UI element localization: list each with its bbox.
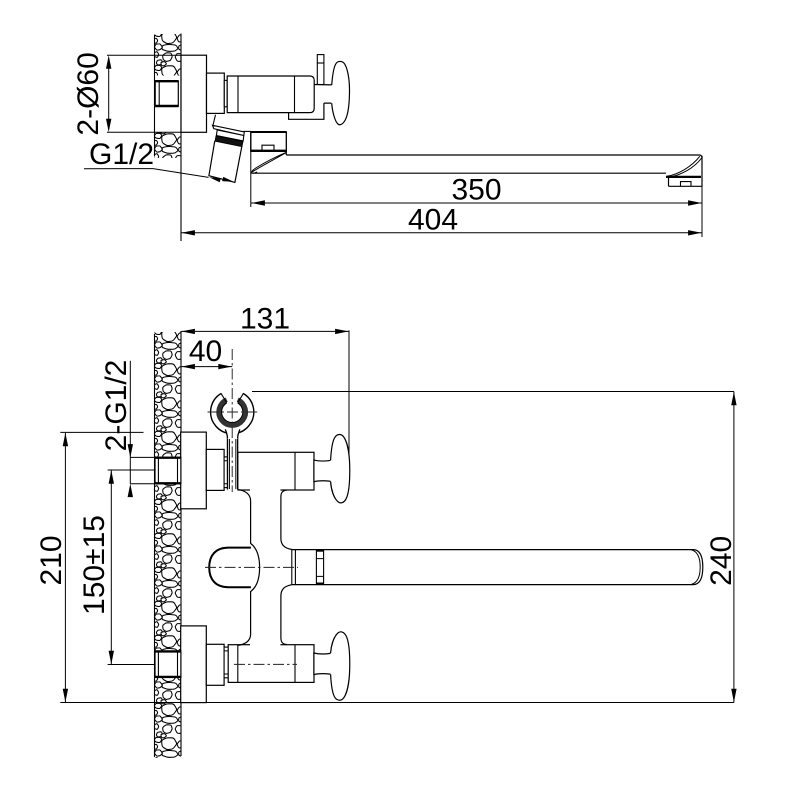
spout nut ring: [316, 550, 323, 585]
hole in wall for supply: [155, 76, 181, 133]
handle knob (side view): [332, 61, 350, 124]
centerlines (dash-dot): [205, 349, 298, 664]
wall hatch (plan view strip): [154, 329, 187, 772]
svg-text:2-Ø60: 2-Ø60: [72, 52, 105, 135]
shower holder hook (C-ring): [211, 390, 254, 439]
spout block / diverter housing: [251, 132, 286, 155]
column left edge with bulge: [238, 490, 260, 646]
dimension 2-Ø60 (escutcheon diameter): [107, 55, 181, 132]
dimension 131: [181, 330, 349, 332]
collar 1: [224, 457, 229, 488]
handle knob 1 (plan view): [331, 434, 350, 502]
svg-text:40: 40: [189, 335, 222, 368]
escutcheon plate 1: [181, 432, 207, 509]
wall left edge line: [154, 35, 156, 156]
wall right edge line + 404 extension line: [180, 34, 182, 242]
shower hook stem: [228, 437, 238, 492]
dimension 150±15 (supply spacing): [108, 470, 155, 665]
handle stem + bracket shelf: [289, 85, 332, 120]
spout end / aerator: [666, 156, 702, 187]
svg-text:240: 240: [705, 536, 738, 586]
wall hatch (top view strip): [154, 31, 187, 168]
spout underside swoosh (left): [251, 152, 286, 173]
supply square 1: [155, 457, 181, 484]
valve arm 1: [228, 452, 314, 490]
dimension 404 (overall length): [181, 232, 702, 234]
svg-text:150±15: 150±15: [78, 515, 111, 615]
dimension 350 (spout reach): [251, 132, 702, 237]
dimension 40: [181, 366, 232, 368]
diverter dome: [209, 548, 251, 588]
mirrored valve groups: upper real, lower via mirror about y=567.35: [155, 432, 350, 509]
handle post (top arm of cross handle): [317, 55, 324, 85]
spout (long, side view): [253, 155, 703, 173]
collar ring: [224, 80, 227, 106]
valve body (horizontal cylinder): [227, 76, 314, 113]
svg-text:G1/2: G1/2: [89, 138, 154, 171]
adapter 1: [206, 449, 224, 490]
svg-text:2-G1/2: 2-G1/2: [100, 360, 133, 452]
svg-text:404: 404: [408, 204, 458, 237]
escutcheon plate (side view): [181, 55, 207, 132]
central body column with diverter dome and spout joint: [250, 486, 280, 649]
hook neck: [226, 430, 240, 439]
column right edge with spout fillets: [281, 490, 292, 645]
svg-text:350: 350: [451, 174, 501, 207]
dimension 240 (hook to bottom): [252, 391, 734, 393]
svg-text:131: 131: [240, 302, 290, 335]
shower outlet (diagonal, G1/2): [209, 115, 244, 183]
spout bar (plan view): [292, 550, 703, 585]
step line from outlet flange to spout block: [243, 130, 251, 132]
adapter: [207, 73, 225, 113]
dimension 210 (overall): [60, 431, 143, 433]
svg-text:210: 210: [35, 535, 68, 585]
spout joint double line: [292, 550, 296, 585]
handle stem 1: [314, 460, 332, 482]
supply pipe square (wall connection): [155, 81, 178, 106]
wall edge lines (plan view): [154, 334, 156, 757]
